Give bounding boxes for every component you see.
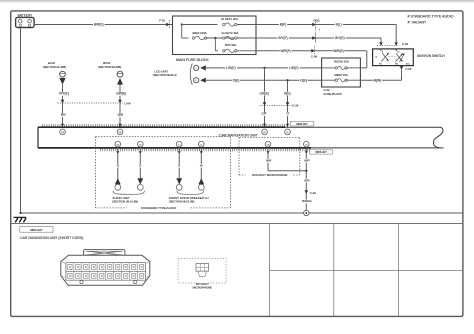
svg-text:BTN 40A: BTN 40A	[225, 43, 236, 47]
svg-text:B/R: B/R	[304, 158, 310, 162]
svg-text:F-01: F-01	[159, 19, 165, 23]
svg-text:IGNITION SWITCH: IGNITION SWITCH	[417, 54, 445, 58]
svg-text:# STANDARD TYPE AUDIO: # STANDARD TYPE AUDIO	[408, 15, 454, 19]
svg-text:ACC: ACC	[406, 62, 411, 65]
svg-text:STANDARD TYPE AUDIO: STANDARD TYPE AUDIO	[141, 206, 177, 210]
svg-text:C-05: C-05	[313, 18, 320, 22]
svg-text:IG KEY1 30A: IG KEY1 30A	[221, 17, 238, 21]
svg-text:IG2: IG2	[395, 63, 398, 65]
svg-text:MAIN FUSE BLOCK: MAIN FUSE BLOCK	[176, 58, 209, 62]
svg-text:R/Y: R/Y	[61, 113, 67, 117]
svg-text:(SECTION 09-21-3B): (SECTION 09-21-3B)	[112, 200, 138, 204]
svg-text:C-06: C-06	[311, 54, 318, 58]
svg-text:MICROPHONE: MICROPHONE	[193, 286, 212, 290]
svg-text:R: R	[117, 163, 119, 167]
svg-text:L/R(E): L/R(E)	[226, 66, 235, 70]
svg-text:R: R	[178, 163, 180, 167]
svg-text:B/R: B/R	[304, 178, 310, 182]
svg-text:ECM: ECM	[48, 61, 55, 65]
svg-text:C-04: C-04	[124, 102, 131, 106]
svg-text:3805-40Y: 3805-40Y	[30, 228, 43, 232]
svg-text:LCD UNIT: LCD UNIT	[154, 69, 168, 73]
svg-text:1R: 1R	[116, 144, 119, 146]
svg-text:B/Y(E): B/Y(E)	[335, 36, 344, 40]
svg-text:(SECTION 09-21-3B): (SECTION 09-21-3B)	[169, 200, 195, 204]
svg-text:B(F): B(F)	[280, 23, 286, 27]
svg-text:L/R(E): L/R(E)	[289, 66, 298, 70]
svg-text:IG1: IG1	[379, 63, 382, 65]
svg-text:MAIN 120A: MAIN 120A	[192, 31, 206, 35]
svg-text:B(L): B(L)	[336, 23, 342, 27]
svg-text:FUSE BLOCK: FUSE BLOCK	[324, 92, 342, 96]
svg-text:G/R: G/R	[118, 113, 124, 117]
svg-text:C-02: C-02	[405, 67, 412, 71]
svg-text:3805-40Y: 3805-40Y	[315, 150, 327, 154]
svg-text:FRONT DOOR SPEAKER LH: FRONT DOOR SPEAKER LH	[169, 196, 209, 200]
svg-text:O(E): O(E)	[233, 78, 240, 82]
svg-text:W/R(E): W/R(E)	[333, 49, 343, 53]
svg-text:C-24: C-24	[292, 104, 299, 108]
svg-text:MIRR 15A: MIRR 15A	[334, 73, 347, 77]
svg-text:IG KEY2 40A: IG KEY2 40A	[222, 31, 239, 35]
svg-text:C-24: C-24	[310, 191, 317, 195]
svg-text:(SECTION 01-40B): (SECTION 01-40B)	[43, 65, 66, 69]
svg-text:CAR NAVIGATION UNIT (SHORT COR: CAR NAVIGATION UNIT (SHORT CORD)	[20, 236, 83, 240]
svg-text:(SECTION 09-40B): (SECTION 09-40B)	[98, 65, 121, 69]
svg-text:BCM: BCM	[103, 61, 110, 65]
svg-text:3805-40Y: 3805-40Y	[296, 122, 308, 126]
svg-text:R/Y(E): R/Y(E)	[59, 92, 69, 96]
svg-text:B(W): B(W)	[374, 78, 381, 82]
svg-text:L/R(E): L/R(E)	[260, 91, 269, 95]
svg-text:WITHOUT MICROPHONE: WITHOUT MICROPHONE	[252, 173, 287, 177]
svg-text:1D: 1D	[263, 132, 266, 134]
svg-text:O(E): O(E)	[284, 91, 291, 95]
svg-text:BATTERY: BATTERY	[17, 13, 33, 17]
svg-text:B/Y(F): B/Y(F)	[278, 36, 287, 40]
svg-text:B/R(E): B/R(E)	[302, 199, 311, 203]
svg-text:L/R: L/R	[262, 112, 268, 116]
svg-text:O(E): O(E)	[300, 78, 307, 82]
svg-text:(SECTION 09-20-4): (SECTION 09-20-4)	[153, 73, 177, 77]
svg-text:#: VACANT: #: VACANT	[408, 21, 428, 25]
svg-text:B/R: B/R	[266, 158, 272, 162]
svg-text:W: W	[200, 163, 203, 167]
svg-text:AUDIO UNIT: AUDIO UNIT	[112, 196, 130, 200]
svg-text:1J: 1J	[178, 144, 180, 146]
svg-text:B/R(E): B/R(E)	[94, 23, 104, 27]
svg-text:C-02: C-02	[402, 42, 409, 46]
svg-text:W/R(F): W/R(F)	[280, 49, 290, 53]
svg-text:G/R(E): G/R(E)	[116, 92, 126, 96]
svg-text:ROOM 15A: ROOM 15A	[334, 60, 349, 64]
